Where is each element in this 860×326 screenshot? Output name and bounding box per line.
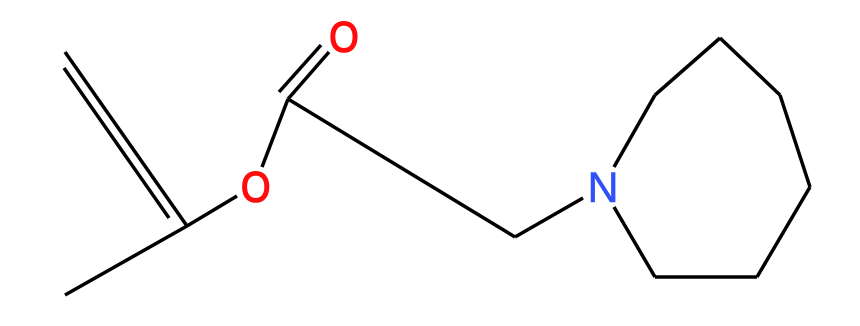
svg-text:O: O bbox=[241, 162, 270, 211]
svg-text:O: O bbox=[329, 12, 358, 61]
svg-text:N: N bbox=[587, 164, 618, 212]
